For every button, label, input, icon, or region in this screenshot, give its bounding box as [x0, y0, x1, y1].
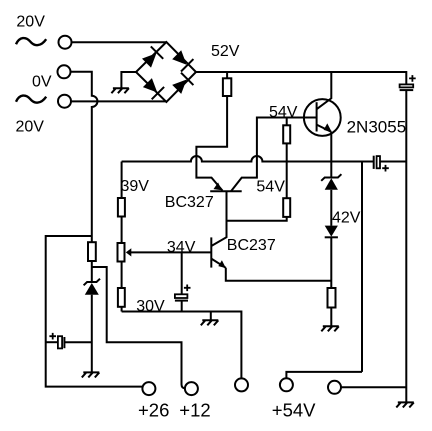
- svg-text:20V: 20V: [16, 14, 45, 31]
- svg-text:BC237: BC237: [227, 237, 276, 254]
- svg-text:30V: 30V: [136, 298, 165, 315]
- svg-text:+54V: +54V: [272, 400, 316, 421]
- svg-text:42V: 42V: [332, 210, 361, 227]
- svg-text:54V: 54V: [269, 104, 298, 121]
- svg-text:39V: 39V: [121, 178, 150, 195]
- svg-text:2N3055: 2N3055: [347, 118, 407, 137]
- svg-text:52V: 52V: [211, 43, 240, 60]
- svg-text:+12: +12: [179, 400, 210, 421]
- svg-text:BC327: BC327: [165, 194, 214, 211]
- svg-text:+26: +26: [138, 400, 169, 421]
- svg-text:34V: 34V: [167, 239, 196, 256]
- svg-text:20V: 20V: [16, 118, 45, 135]
- svg-text:0V: 0V: [32, 74, 52, 91]
- svg-text:54V: 54V: [256, 178, 285, 195]
